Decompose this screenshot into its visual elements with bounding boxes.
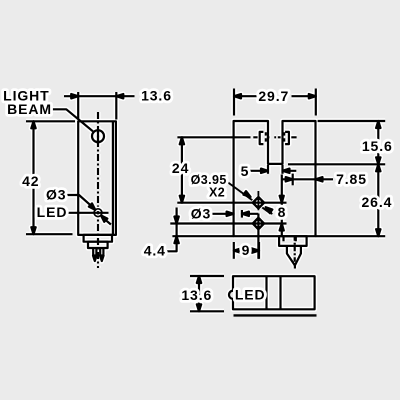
svg-text:42: 42 xyxy=(22,173,39,189)
svg-text:7.85: 7.85 xyxy=(336,171,367,187)
svg-text:9: 9 xyxy=(242,242,251,258)
svg-text:8: 8 xyxy=(278,204,287,220)
svg-text:BEAM: BEAM xyxy=(7,101,52,117)
svg-text:26.4: 26.4 xyxy=(361,194,392,210)
svg-text:X2: X2 xyxy=(209,186,225,200)
svg-text:29.7: 29.7 xyxy=(258,88,289,104)
svg-text:5: 5 xyxy=(241,163,250,179)
svg-text:LED: LED xyxy=(235,287,266,303)
svg-text:13.6: 13.6 xyxy=(181,287,212,303)
svg-text:LED: LED xyxy=(37,204,68,220)
svg-text:4.4: 4.4 xyxy=(144,243,166,259)
svg-text:24: 24 xyxy=(172,160,189,176)
svg-text:15.6: 15.6 xyxy=(362,138,393,154)
svg-text:Ø3: Ø3 xyxy=(46,186,66,202)
svg-text:13.6: 13.6 xyxy=(141,88,172,104)
svg-text:Ø3: Ø3 xyxy=(191,206,211,222)
